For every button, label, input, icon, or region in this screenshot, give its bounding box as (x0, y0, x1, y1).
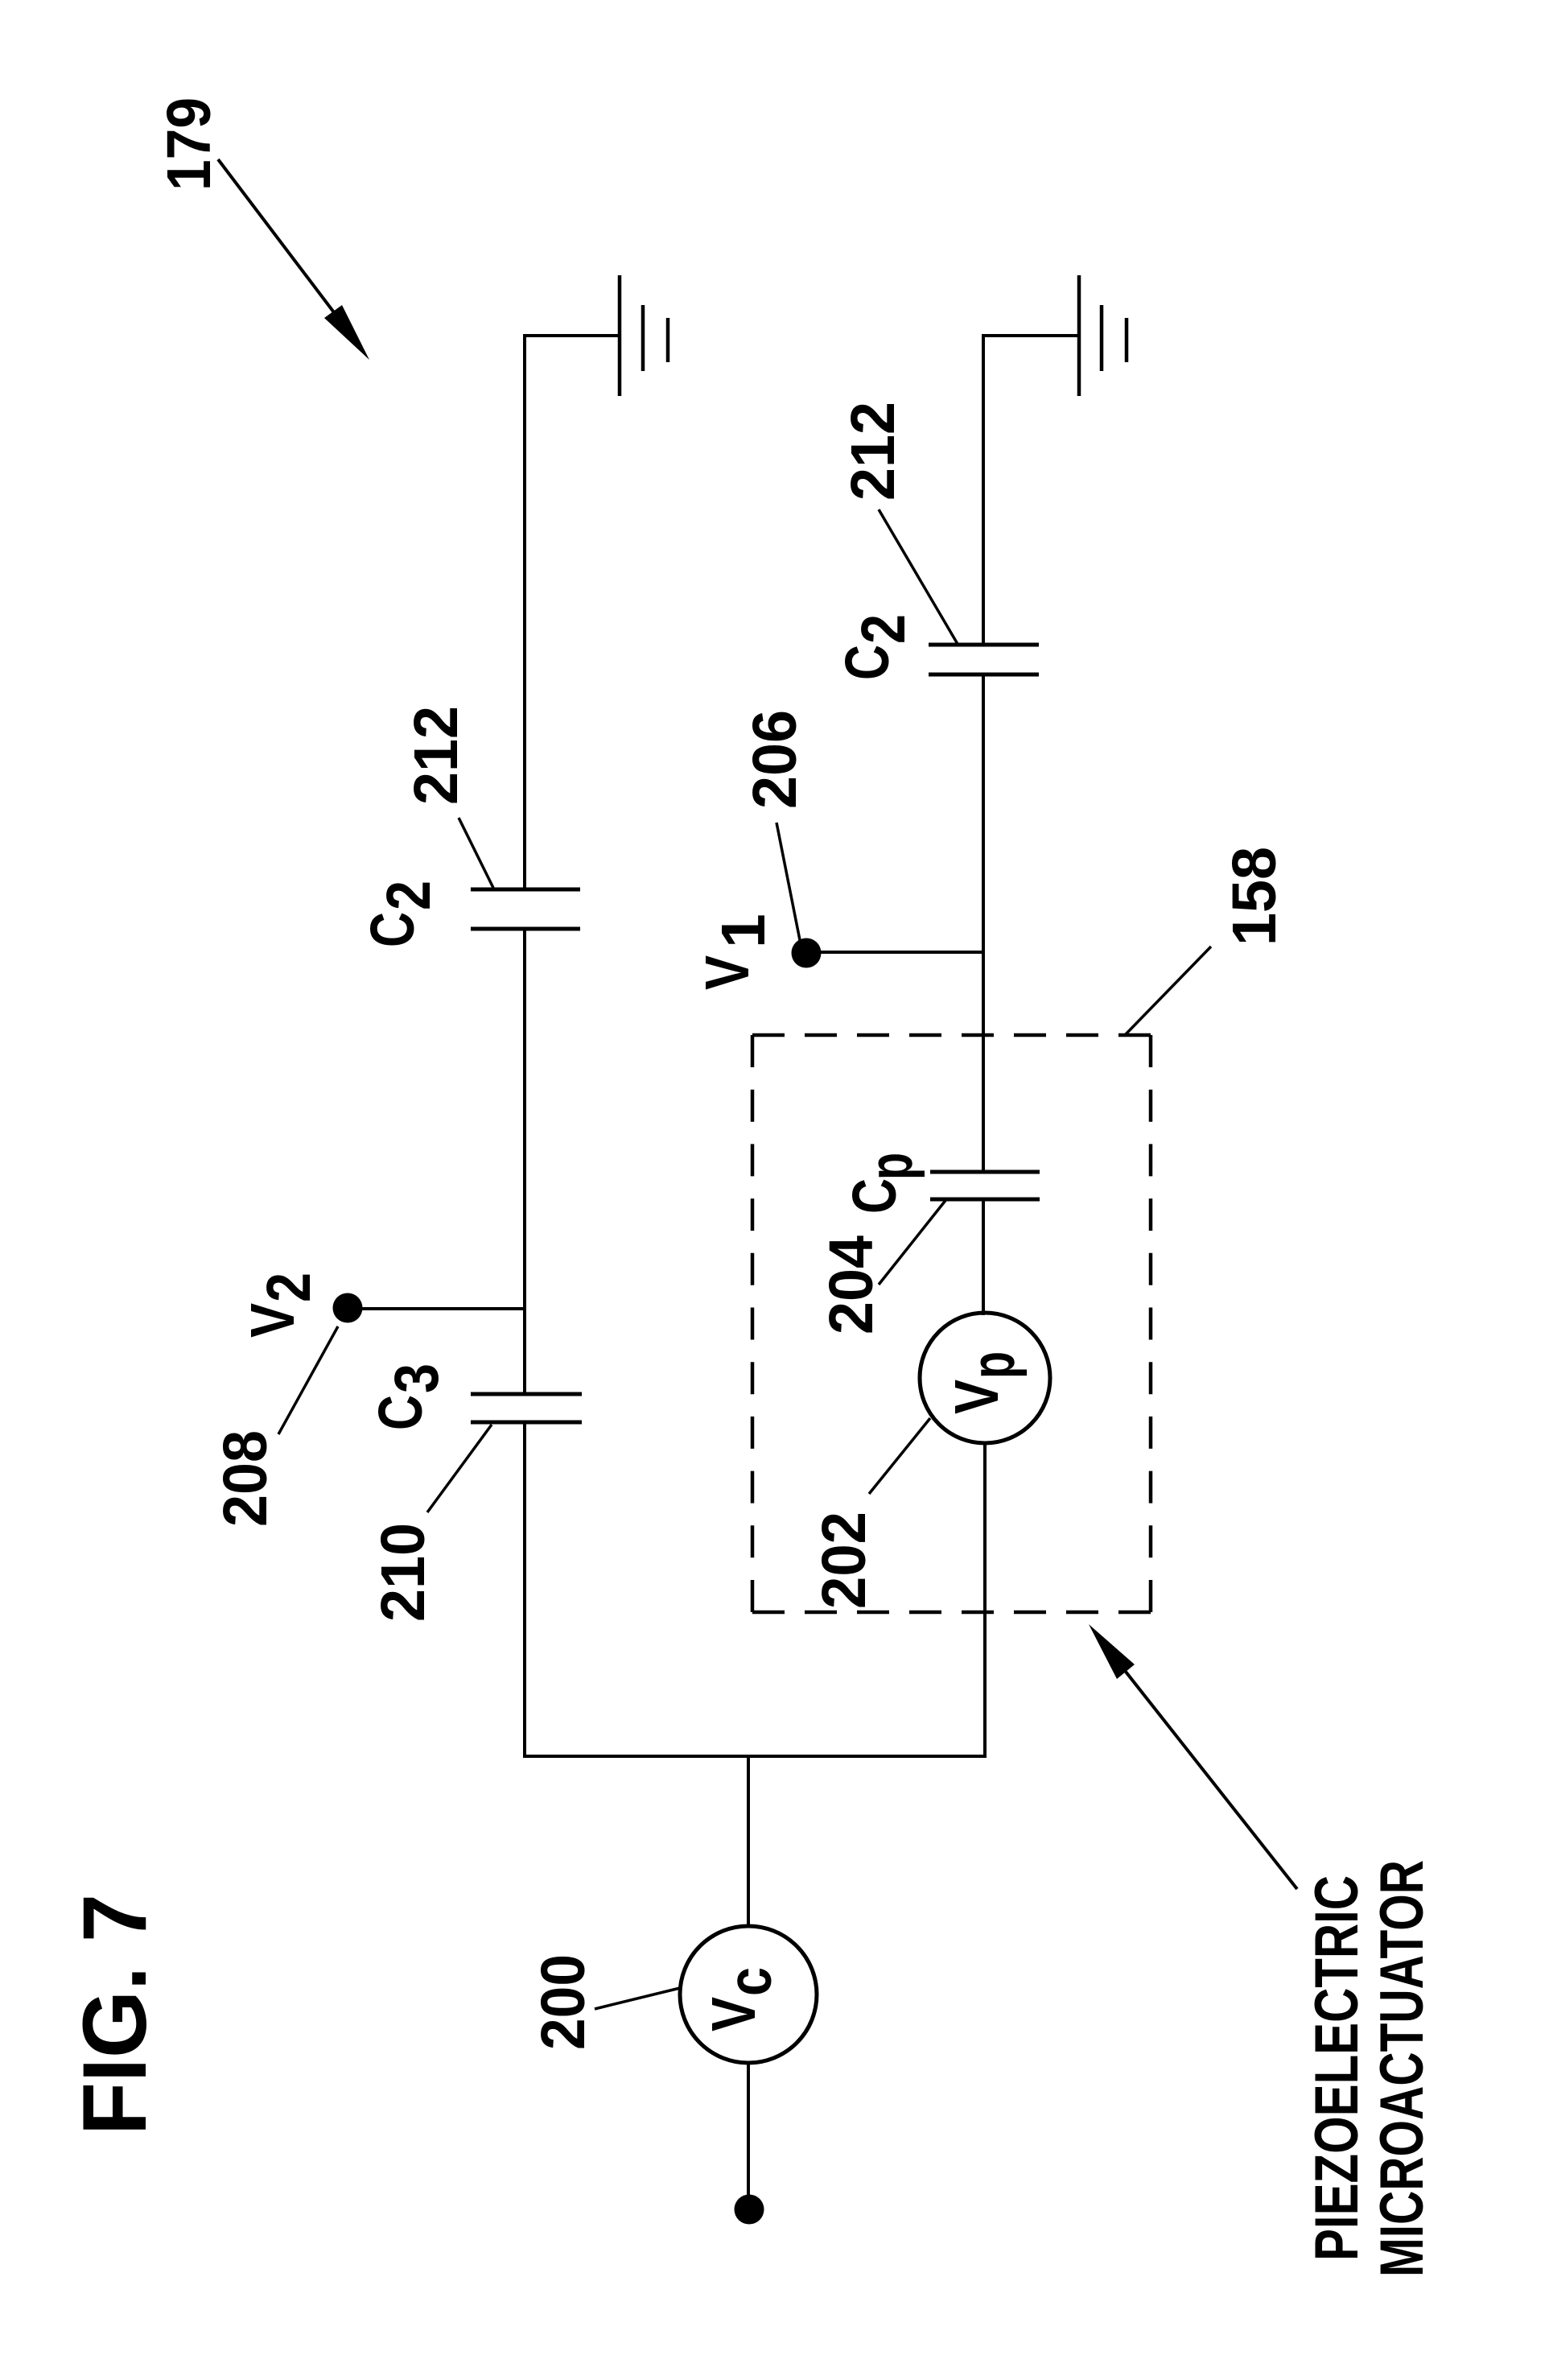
svg-text:212: 212 (402, 706, 471, 805)
svg-text:p: p (958, 1351, 1028, 1379)
voltage source Vp (ref 202) (920, 1313, 1050, 1443)
svg-text:V: V (942, 1380, 1011, 1414)
svg-text:2: 2 (849, 614, 918, 644)
wire: left branch C3 to bottom bus (523, 1422, 526, 1758)
leader 200 (595, 1988, 680, 2009)
leader 202 (869, 1418, 930, 1494)
wire: Vp to bottom bus (983, 1443, 987, 1758)
leader 158 (1124, 947, 1211, 1036)
wire: right ground to right branch corner (983, 336, 1077, 646)
leader 212 (left) (459, 818, 493, 888)
input terminal dot (735, 2195, 764, 2225)
wire: left ground to left branch corner (525, 336, 618, 891)
svg-text:PIEZOELECTRIC: PIEZOELECTRIC (1303, 1875, 1371, 2261)
capacitor Cp (ref 204) (930, 1170, 1040, 1174)
leader 208 (278, 1326, 338, 1434)
svg-text:c: c (715, 1967, 785, 1996)
ground (left branch) (620, 275, 668, 396)
svg-text:179: 179 (154, 97, 224, 191)
capacitor C3 (ref 210) (471, 1392, 582, 1396)
arrow from 179 to circuit (218, 159, 341, 322)
svg-text:208: 208 (211, 1430, 280, 1527)
svg-text:204: 204 (817, 1235, 886, 1334)
svg-text:1: 1 (709, 914, 778, 948)
svg-text:158: 158 (1220, 847, 1289, 946)
svg-text:p: p (856, 1153, 925, 1180)
svg-text:C: C (840, 1178, 909, 1214)
wire: left branch C2 to C3 (523, 929, 526, 1394)
wire: V1 stub (813, 951, 983, 954)
svg-text:2: 2 (374, 881, 443, 910)
svg-text:202: 202 (809, 1512, 879, 1609)
svg-text:C: C (833, 645, 902, 680)
svg-text:C: C (358, 912, 427, 947)
svg-text:206: 206 (740, 710, 809, 809)
arrow to 158 box (piezoelectric microactuator callout) (1123, 1668, 1297, 1889)
svg-text:212: 212 (838, 402, 908, 501)
leader 204 (879, 1198, 947, 1285)
svg-text:MICROACTUATOR: MICROACTUATOR (1368, 1860, 1436, 2277)
wire: V2 stub (354, 1307, 525, 1310)
wire: bottom bus (523, 1755, 985, 1758)
svg-text:200: 200 (529, 1954, 598, 2050)
capacitor C2 (right, ref 212) (929, 643, 1039, 647)
dashed box 158 piezoelectric microactuator (752, 1035, 1151, 1612)
svg-text:C: C (366, 1395, 435, 1430)
svg-text:V: V (699, 1997, 768, 2031)
svg-text:3: 3 (382, 1363, 451, 1393)
wire: Vc to input terminal (747, 2063, 750, 2197)
node V2 dot (333, 1293, 363, 1323)
svg-text:V: V (693, 955, 762, 990)
svg-text:V: V (238, 1303, 307, 1338)
voltage source Vc (ref 200) (680, 1926, 817, 2063)
svg-text:210: 210 (369, 1523, 438, 1622)
node V1 dot (792, 938, 822, 968)
leader 212 (right) (879, 509, 958, 644)
wire: bus to Vc source (747, 1756, 750, 1928)
leader 210 (427, 1425, 492, 1512)
ground (right branch) (1079, 275, 1127, 396)
wire: right branch C2 to Cp (982, 674, 985, 1174)
leader 206 (776, 823, 800, 940)
wire: Cp to Vp source (982, 1199, 985, 1315)
capacitor C2 (left, ref 212) (471, 888, 580, 892)
svg-text:FIG. 7: FIG. 7 (64, 1894, 165, 2135)
svg-text:2: 2 (254, 1272, 323, 1302)
